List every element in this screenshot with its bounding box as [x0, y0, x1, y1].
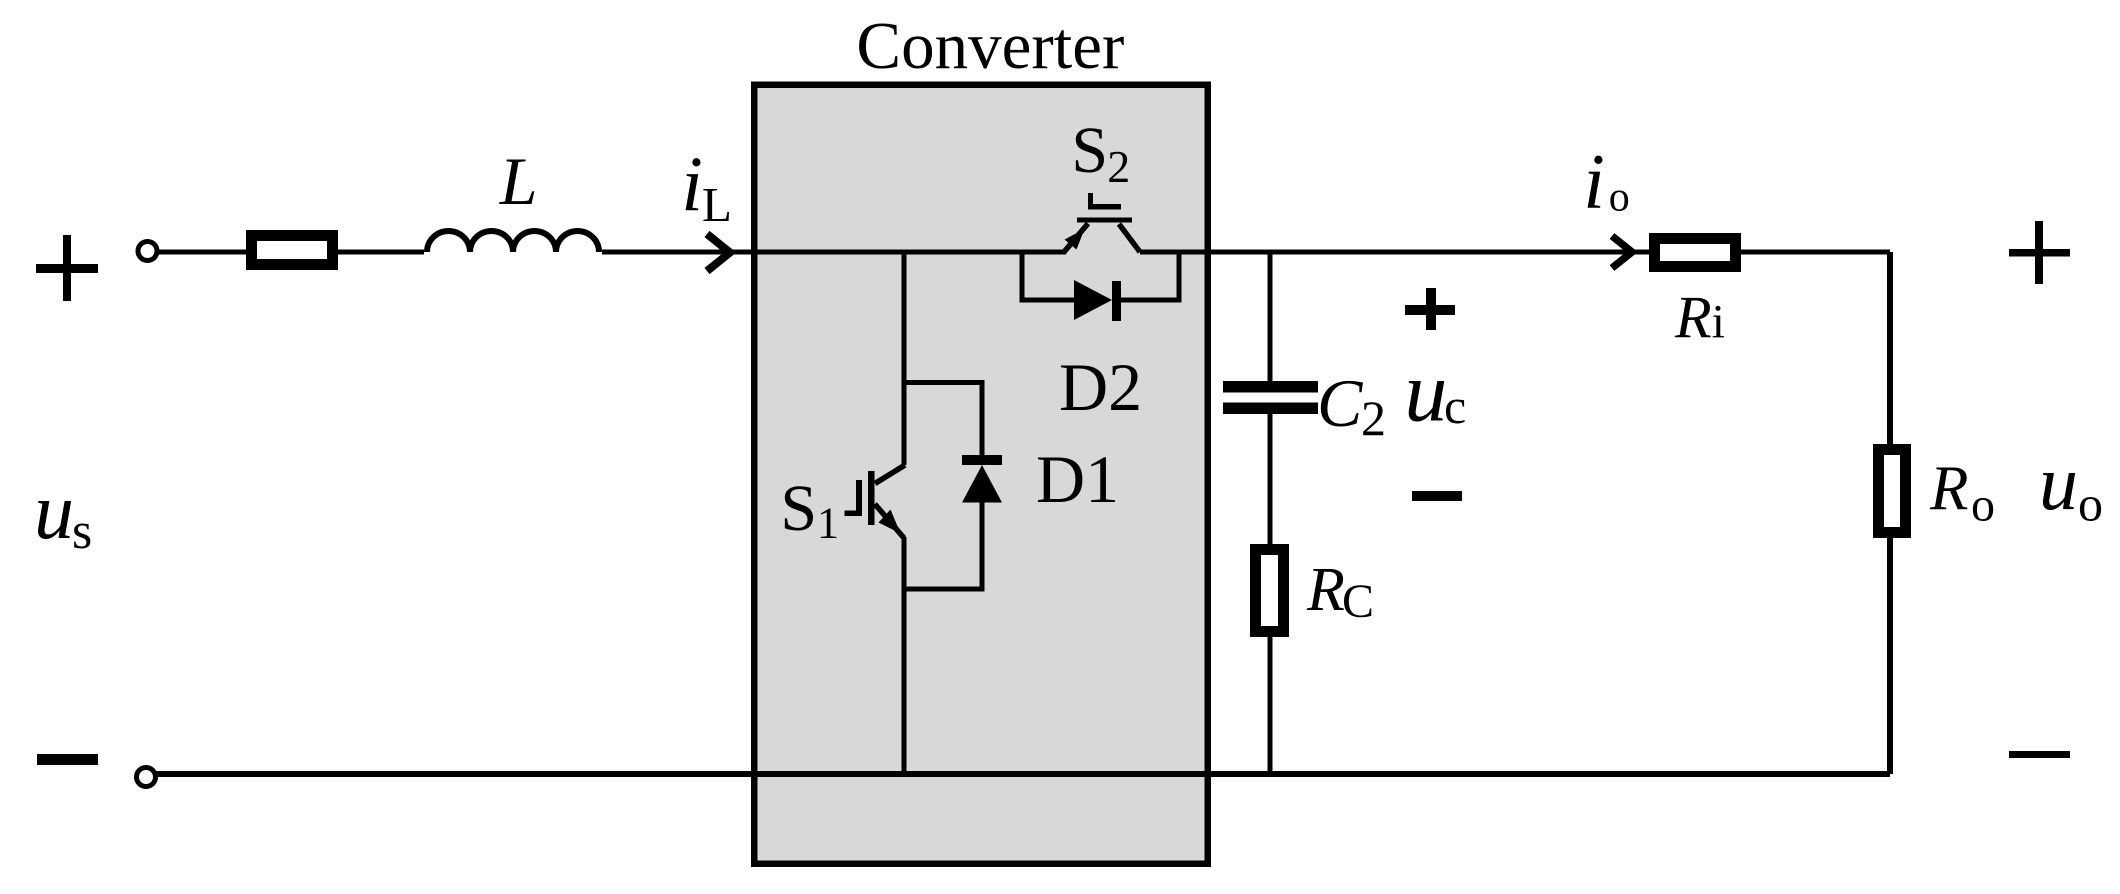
diode D1 triangle — [962, 465, 1002, 503]
svg-text:o: o — [1609, 175, 1630, 221]
svg-text:u: u — [34, 468, 74, 556]
svg-text:R: R — [1306, 556, 1345, 624]
resistor RC — [1256, 550, 1284, 632]
transistor S1 emitter arrow — [879, 510, 901, 534]
svg-text:i: i — [1712, 296, 1725, 349]
svg-text:2: 2 — [1361, 390, 1386, 446]
wire top-left (source to inductor) — [150, 250, 424, 255]
diode D2 left leg and anode wire — [1022, 250, 1076, 300]
transistor S2 collector — [1119, 224, 1140, 252]
svg-text:D1: D1 — [1036, 441, 1119, 517]
svg-text:u: u — [2039, 439, 2078, 526]
svg-text:Converter: Converter — [856, 9, 1124, 83]
svg-text:1: 1 — [817, 499, 839, 548]
svg-text:2: 2 — [1107, 141, 1130, 192]
inductor L — [427, 231, 599, 252]
svg-text:R: R — [1674, 285, 1712, 351]
terminal node bottom-left — [137, 768, 156, 787]
wire RC to bottom rail — [1268, 637, 1273, 774]
svg-text:S: S — [780, 472, 817, 545]
transistor S1 bar — [868, 471, 875, 525]
svg-text:o: o — [2078, 476, 2103, 532]
resistor Ri — [1655, 239, 1736, 267]
svg-text:C: C — [1317, 365, 1363, 441]
plus sign right — [2009, 221, 2070, 284]
transistor S1 emitter — [875, 504, 904, 538]
diode D2 triangle — [1074, 280, 1112, 320]
resistor Ro — [1879, 450, 1906, 533]
converter box — [754, 85, 1208, 864]
diode D1 top and upper wire — [904, 383, 982, 458]
wire capacitor branch upper — [1268, 252, 1273, 381]
svg-text:L: L — [499, 143, 538, 219]
capacitor C2 top plate — [1223, 381, 1318, 393]
svg-text:S: S — [1071, 114, 1108, 187]
svg-text:R: R — [1929, 454, 1968, 524]
capacitor C2 bottom plate — [1223, 403, 1318, 415]
resistor source (unlabeled) — [252, 236, 333, 265]
terminal node top-left — [138, 242, 157, 261]
svg-text:i: i — [1583, 138, 1605, 225]
diode D1 lower and bottom wire — [904, 500, 982, 589]
svg-text:C: C — [1342, 575, 1374, 628]
transistor S1 collector — [875, 465, 905, 484]
plus sign left — [36, 235, 98, 301]
wire right vertical (Ro branch) — [1887, 252, 1893, 774]
svg-text:u: u — [1404, 344, 1447, 440]
svg-text:c: c — [1444, 378, 1466, 434]
minus sign capacitor — [1412, 491, 1462, 501]
diode D1 cathode bar — [962, 455, 1002, 465]
transistor S2 bar — [1077, 218, 1132, 223]
diode D2 cathode bar — [1112, 281, 1121, 321]
diode D2 cathode wire and right leg — [1119, 250, 1179, 300]
minus sign right — [2009, 751, 2070, 758]
wire capacitor to RC — [1268, 414, 1273, 545]
wire inductor to S2 emitter — [602, 250, 1066, 255]
arrow i_L — [707, 234, 730, 271]
minus sign left — [37, 754, 98, 765]
svg-text:i: i — [681, 140, 703, 227]
transistor S2 gate lead — [1088, 193, 1121, 210]
wire S2 collector to right corner — [1140, 250, 1890, 255]
plus sign capacitor — [1405, 288, 1455, 330]
transistor S2 emitter — [1064, 224, 1088, 253]
svg-text:s: s — [72, 503, 92, 560]
svg-text:L: L — [702, 177, 732, 232]
wire bottom rail — [150, 771, 1890, 777]
transistor S2 emitter arrow — [1065, 229, 1085, 250]
wire S1 branch vertical lower — [902, 537, 907, 774]
arrow i_o — [1612, 236, 1632, 268]
transistor S1 gate lead — [845, 480, 863, 516]
wire S1 branch vertical upper — [902, 252, 907, 465]
svg-text:o: o — [1971, 479, 1995, 532]
svg-text:D2: D2 — [1059, 349, 1142, 425]
